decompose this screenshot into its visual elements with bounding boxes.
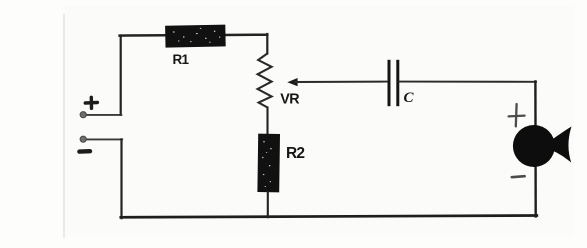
wire: minus terminal lead bbox=[86, 138, 123, 140]
wire: bottom horizontal rail bbox=[121, 216, 537, 218]
wire: bottom left rail vertical bbox=[120, 139, 122, 218]
node: minus terminal dot bbox=[80, 136, 86, 142]
svg-text:R1: R1 bbox=[173, 52, 190, 67]
wire: right rail vertical bbox=[534, 81, 537, 216]
wire: capacitor to right rail bbox=[399, 81, 536, 83]
wire: vertical from corner down to VR bbox=[266, 34, 268, 54]
node: plus terminal dot bbox=[80, 112, 86, 118]
wire: top horizontal to R1 bbox=[120, 34, 166, 37]
earphone/speaker transducer body bbox=[513, 125, 555, 167]
capacitor C plates bbox=[388, 60, 400, 106]
earphone horn cone bbox=[549, 127, 572, 163]
wire: arrow lead toward capacitor bbox=[295, 81, 387, 83]
power symbol: minus sign (input -) bbox=[79, 149, 90, 154]
svg-text:C: C bbox=[404, 90, 415, 106]
wire: top left rail vertical bbox=[120, 36, 122, 115]
earphone positive marking + bbox=[509, 104, 525, 126]
wire: plus terminal lead bbox=[86, 114, 122, 116]
resistor R1 (block style) bbox=[165, 25, 226, 48]
resistor R2 (block style) bbox=[257, 134, 280, 193]
wire: VR to R2 bbox=[266, 108, 268, 136]
wire: R1 to top-right corner of left loop bbox=[224, 33, 267, 36]
potentiometer VR (zigzag element) bbox=[258, 54, 272, 108]
scan fold artifact line bbox=[63, 14, 65, 238]
earphone negative marking - bbox=[512, 176, 525, 177]
svg-text:VR: VR bbox=[280, 92, 300, 108]
power symbol: plus sign (input +) bbox=[85, 97, 97, 108]
wiper arrow into VR bbox=[287, 78, 387, 86]
svg-text:R2: R2 bbox=[286, 145, 304, 162]
wire: R2 to bottom rail bbox=[267, 192, 269, 217]
